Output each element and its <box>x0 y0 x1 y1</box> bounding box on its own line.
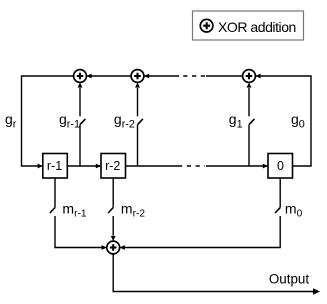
arrowhead into register 0 (right-pointing) <box>263 164 268 169</box>
arrowhead up into A1 <box>78 82 83 87</box>
wire: g_r feedback path (top-left corner down to register r-1 input) <box>22 76 74 166</box>
svg-text:gr-1: gr-1 <box>59 111 80 130</box>
wire: g_r-1 tap upper segment with arrow into A1 <box>79 88 81 116</box>
wire: m_r-1 path upper segment (from r-1 bottom) <box>54 178 56 208</box>
arrowhead output (right-pointing) <box>313 288 320 294</box>
arrowhead into register r-2 (right-pointing) <box>96 164 101 169</box>
arrowhead up into A3 <box>247 82 252 87</box>
wire: g_1 tap upper segment with arrow into A3 <box>248 88 250 116</box>
svg-text:Output: Output <box>269 272 309 287</box>
switch m_r-2 blade <box>108 208 113 213</box>
svg-text:g1: g1 <box>229 111 243 130</box>
arrowhead into bottom adder (left-pointing) <box>120 245 125 250</box>
wire: top line between A3 and A2 (dashed continuation in middle) <box>206 75 243 77</box>
svg-text:m0: m0 <box>285 200 303 219</box>
arrowhead into xor adder A1 (left-pointing) <box>86 74 91 79</box>
legend XOR symbol <box>200 19 213 32</box>
svg-text:0: 0 <box>277 159 284 173</box>
xor adder A3 (top right) <box>243 70 256 83</box>
wire: g_1 tap lower segment <box>248 124 250 166</box>
wire: top feedback line, right vertical (g0 path) <box>255 76 311 166</box>
arrowhead down into bottom adder <box>111 236 116 241</box>
switch g_r-2 blade <box>138 119 143 125</box>
arrowhead into xor adder A3 (left-pointing) <box>255 74 260 79</box>
wire: g_r-1 tap lower segment <box>79 124 81 166</box>
wire: between r-1 and r-2 <box>67 165 100 167</box>
arrowhead into bottom adder (right-pointing) <box>102 245 107 250</box>
register r-2 <box>101 154 126 179</box>
wire: g_r-2 tap upper segment with arrow into A2 <box>137 88 139 116</box>
switch m_r-1 blade <box>50 208 55 213</box>
svg-text:mr-1: mr-1 <box>62 200 86 219</box>
svg-text:r-1: r-1 <box>47 159 62 173</box>
switch m_0 blade <box>275 208 280 213</box>
wire: m_r-2 path lower segment into bottom adder top <box>112 216 114 236</box>
arrowhead into register r-1 (right-pointing) <box>38 164 43 169</box>
svg-text:XOR addition: XOR addition <box>218 19 296 35</box>
wire <box>206 165 268 167</box>
wire: m_0 path lower segment to bottom adder right side <box>120 216 280 248</box>
svg-text:r-2: r-2 <box>105 159 120 173</box>
arrowhead up into A2 <box>135 82 140 87</box>
wire: between r-2 and 0 box (solid part) <box>126 165 179 167</box>
xor adder A2 <box>131 70 144 83</box>
xor adder A4 (bottom) <box>107 241 120 254</box>
register 0 <box>268 154 293 179</box>
wire: m_r-1 path lower segment to bottom adder <box>55 216 106 248</box>
wire: top dashed continuation <box>178 75 205 77</box>
switch g_1 blade <box>249 119 254 125</box>
legend box <box>193 11 304 40</box>
svg-text:gr: gr <box>5 111 17 130</box>
arrowhead into xor adder A2 (left-pointing) <box>144 74 149 79</box>
register r-1 <box>43 154 68 179</box>
switch g_r-1 blade <box>80 119 85 125</box>
wire: output path from bottom adder <box>113 254 314 292</box>
wire: m_r-2 path upper segment (from r-2 bottom) <box>112 178 114 208</box>
wire: m_0 path upper segment (from 0 box bottom) <box>279 178 281 208</box>
svg-text:mr-2: mr-2 <box>121 200 145 219</box>
wire <box>144 75 179 77</box>
wire: top line between A2 and A1 <box>86 75 131 77</box>
svg-text:gr-2: gr-2 <box>114 111 135 130</box>
wire: middle dashed continuation <box>178 165 205 167</box>
wire: g_r-2 tap lower segment <box>137 124 139 166</box>
svg-text:g0: g0 <box>291 111 305 130</box>
xor adder A1 (top left) <box>74 70 87 83</box>
